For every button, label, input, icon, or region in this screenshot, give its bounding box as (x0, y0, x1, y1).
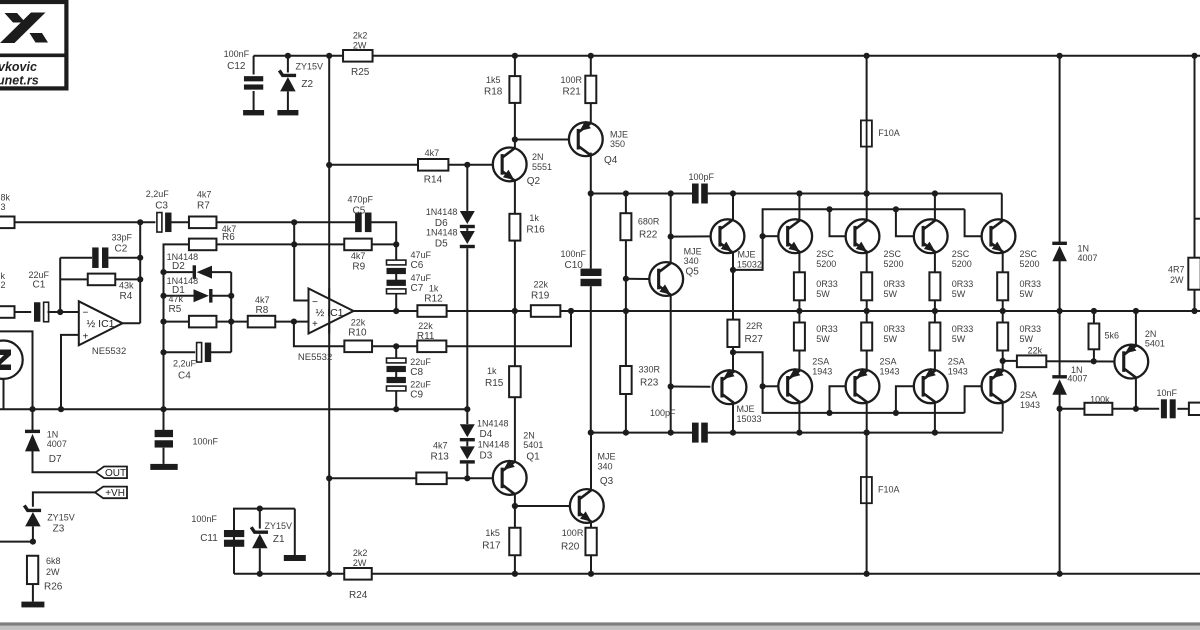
wire Q5 base (626, 278, 649, 280)
input source circle (0, 341, 23, 379)
wire 0R33 upper #3 to mid rail (934, 300, 936, 311)
resistor R10 (344, 341, 372, 353)
svg-text:680R: 680R (638, 217, 660, 227)
wire 2SC5200 #4 collector (1001, 194, 1003, 220)
wire R22 to Q5 base node (625, 240, 627, 311)
svg-text:2N: 2N (1145, 329, 1157, 339)
wire 10nF to edge resistor (1177, 408, 1189, 410)
svg-text:5W: 5W (884, 334, 898, 344)
svg-text:D3: D3 (480, 451, 493, 462)
svg-text:5200: 5200 (816, 259, 836, 269)
wire input line to C3 (15, 221, 156, 223)
svg-text:R9: R9 (352, 262, 365, 273)
op-amp U1B (309, 289, 354, 334)
resistor R7 (189, 217, 217, 229)
wire C9 to ground rail (395, 391, 397, 409)
svg-text:5200: 5200 (1020, 259, 1040, 269)
svg-text:OUT: OUT (105, 468, 126, 479)
resistor R27 (727, 320, 739, 347)
resistor R8 (217, 321, 248, 323)
resistor R17 (509, 528, 520, 556)
svg-text:22k: 22k (418, 321, 433, 331)
svg-text:47k: 47k (169, 294, 184, 304)
diode D5 (466, 228, 468, 231)
wire 2SC5200 #3 emitter (934, 253, 936, 273)
svg-text:2W: 2W (353, 41, 367, 51)
wire R13 to Q1 base (447, 477, 493, 479)
svg-text:2,2uF: 2,2uF (146, 189, 170, 199)
wire Q4 collector to rail (590, 153, 592, 194)
svg-text:1N4148: 1N4148 (426, 207, 458, 217)
svg-text:Q4: Q4 (604, 155, 618, 166)
svg-text:5551: 5551 (532, 162, 552, 172)
wire diode network right column (230, 272, 232, 352)
wire Q5 collector to driver base (671, 235, 711, 237)
wire 2SA1943 #3 collector (934, 403, 936, 433)
svg-text:100nF: 100nF (561, 249, 587, 259)
wire bottom negative supply rail (234, 573, 1200, 575)
svg-text:43k: 43k (119, 281, 134, 291)
transistor Q5 (649, 262, 683, 296)
svg-text:22uF: 22uF (29, 270, 50, 280)
resistor R13 (416, 473, 446, 485)
wire R8 to op-amp2 plus (275, 321, 308, 323)
svg-text:MJE: MJE (610, 130, 628, 140)
svg-text:47uF: 47uF (411, 273, 432, 283)
transistor 2SA1943 #4 (982, 369, 1016, 403)
diode D2 (164, 271, 193, 273)
svg-text:0R33: 0R33 (884, 324, 906, 334)
zener Z2 (285, 53, 291, 59)
svg-text:D2: D2 (172, 261, 185, 272)
svg-text:5401: 5401 (523, 440, 543, 450)
svg-text:C9: C9 (410, 390, 423, 401)
svg-text:2SA: 2SA (948, 357, 965, 367)
zener Z1 (257, 506, 263, 512)
logo X mark (0, 13, 46, 44)
svg-text:+: + (312, 319, 318, 330)
diode D6 (466, 165, 468, 211)
page bottom border (0, 622, 1200, 625)
capacitor 100pF lower (692, 423, 699, 443)
wire R14 line (329, 164, 418, 166)
svg-text:C5: C5 (353, 206, 366, 217)
svg-text:D5: D5 (435, 239, 448, 250)
svg-text:C7: C7 (411, 283, 424, 294)
svg-text:MJE: MJE (738, 250, 756, 260)
svg-text:1k5: 1k5 (485, 528, 500, 538)
wire C2 right (109, 257, 141, 259)
capacitor C11 (233, 530, 235, 574)
resistor R14 (418, 159, 448, 171)
wire left ground rail (0, 408, 467, 410)
wire C1 to op-amp (48, 311, 79, 313)
svg-text:1k5: 1k5 (486, 75, 501, 85)
wire op-amp1 output (123, 322, 141, 324)
svg-text:R7: R7 (197, 201, 210, 212)
svg-text:1943: 1943 (1020, 400, 1040, 410)
svg-text:1k: 1k (529, 213, 539, 223)
ground R26 (21, 602, 44, 608)
wire C7 to output node (395, 294, 397, 311)
wire R2 to C1 (15, 311, 32, 313)
svg-text:R10: R10 (348, 328, 367, 339)
transistor driver MJE15033 (713, 370, 747, 404)
resistor 0R33 lower #3 (934, 311, 936, 323)
input source box (0, 331, 33, 409)
resistor R6 (189, 239, 217, 251)
svg-text:22R: 22R (746, 321, 763, 331)
resistor 0R33 upper #2 (861, 272, 872, 300)
svg-text:2W: 2W (46, 567, 60, 577)
wire 2SC5200 #3 collector (934, 194, 936, 220)
transistor 2SA1943 #1 (778, 369, 812, 403)
capacitor C6 (387, 260, 406, 265)
svg-text:100R: 100R (561, 75, 583, 85)
svg-text:47uF: 47uF (411, 250, 432, 260)
wire R15 to Q1 emitter (514, 397, 516, 461)
svg-text:33pF: 33pF (112, 233, 133, 243)
svg-text:R4: R4 (120, 291, 133, 302)
wire D7 to OUT tag (33, 447, 96, 472)
wire 100k to 10nF (1112, 408, 1159, 410)
svg-text:100nF: 100nF (224, 49, 250, 59)
transistor Q1 (493, 461, 527, 495)
wire output-stage negative rail (591, 432, 692, 434)
svg-text:½ IC1: ½ IC1 (316, 307, 344, 319)
op-amp U1A (79, 301, 123, 345)
capacitor C10 (590, 194, 592, 269)
svg-text:1N: 1N (47, 430, 59, 440)
svg-text:2SA: 2SA (880, 357, 897, 367)
wire top positive supply rail (254, 55, 1200, 57)
svg-text:1943: 1943 (880, 367, 900, 377)
svg-text:C11: C11 (200, 533, 218, 544)
svg-text:R21: R21 (563, 87, 582, 98)
svg-text:R18: R18 (484, 87, 503, 98)
svg-text:C8: C8 (410, 367, 423, 378)
transistor 2SC5200 #3 (914, 219, 948, 253)
svg-text:Z3: Z3 (53, 524, 65, 535)
svg-text:MJE: MJE (598, 452, 616, 462)
svg-text:Z1: Z1 (273, 534, 285, 545)
wire R18 to Q2 collector (514, 103, 516, 148)
ground Z1 (294, 509, 296, 555)
wire R12 to R19 (447, 310, 531, 312)
capacitor C1 (34, 302, 40, 322)
wire diode column to Q1 base line (466, 464, 468, 479)
svg-text:100R: 100R (562, 528, 584, 538)
wire lower base bus (733, 352, 965, 413)
svg-text:C12: C12 (227, 61, 246, 72)
capacitor C3 (157, 213, 162, 233)
resistor 22k (1017, 355, 1046, 367)
wire 4R7 to mid rail (1194, 290, 1196, 311)
node +VH (95, 487, 127, 499)
svg-text:22uF: 22uF (410, 380, 431, 390)
resistor R22 (625, 194, 627, 214)
svg-text:−: − (83, 308, 89, 319)
svg-text:ZY15V: ZY15V (296, 62, 324, 72)
wire Q1 collector to Q3 base (515, 505, 570, 507)
resistor 0R33 upper #1 (794, 272, 805, 300)
svg-text:4k7: 4k7 (433, 441, 448, 451)
svg-text:22k: 22k (534, 280, 549, 290)
svg-text:22k: 22k (1028, 345, 1043, 355)
svg-text:100pF: 100pF (650, 408, 676, 418)
wire 22k to transistor base (1046, 360, 1114, 362)
wire R13 line (329, 477, 416, 479)
resistor 0R33 lower #2 (866, 311, 868, 323)
svg-text:vkovic: vkovic (0, 60, 37, 74)
svg-text:5200: 5200 (952, 259, 972, 269)
transistor driver MJE15032 (711, 219, 745, 253)
svg-text:340: 340 (598, 462, 613, 472)
svg-text:R16: R16 (526, 225, 545, 236)
wire 0R33 upper #1 to mid rail (798, 300, 800, 311)
svg-text:R27: R27 (745, 334, 764, 345)
resistor R18 (514, 56, 516, 76)
capacitor 100nF ground (163, 409, 165, 430)
capacitor C8 (395, 346, 397, 359)
resistor R23 (625, 311, 627, 366)
wire Q5 collector riser (670, 194, 672, 263)
svg-text:R19: R19 (531, 291, 550, 302)
wire R27 to lower driver emitter (732, 347, 734, 371)
svg-text:2SA: 2SA (812, 357, 829, 367)
resistor R16 (514, 181, 516, 214)
svg-text:C2: C2 (115, 244, 128, 255)
resistor R3 (0, 217, 15, 229)
wire 0R33 upper #4 to mid rail (1002, 300, 1004, 311)
svg-text:R12: R12 (424, 294, 443, 305)
svg-text:C6: C6 (411, 260, 424, 271)
wire 0R33 upper #2 to mid rail (866, 300, 868, 311)
resistor 100k (1060, 408, 1085, 410)
capacitor C5 (355, 213, 362, 233)
wire 2SA1943 #4 base (965, 386, 982, 413)
resistor R20 (590, 522, 592, 528)
wire R4 left (60, 278, 87, 280)
wire 2SC5200 #2 base (830, 209, 846, 236)
wire feedback column (59, 258, 61, 312)
resistor R19 (531, 305, 561, 317)
svg-text:F10A: F10A (878, 128, 900, 138)
resistor R15 (514, 311, 516, 366)
wire R12 left (354, 310, 418, 312)
svg-text:ZY15V: ZY15V (265, 521, 293, 531)
wire plus to feedback line (294, 322, 345, 347)
svg-text:22uF: 22uF (410, 357, 431, 367)
wire 2SA1943 #1 base (763, 385, 779, 387)
wire 2SC5200 #1 emitter (798, 253, 800, 273)
svg-text:10nF: 10nF (1157, 388, 1178, 398)
wire C2 left (60, 257, 92, 259)
svg-text:0R33: 0R33 (816, 324, 838, 334)
wire 2SA1943 #2 base (830, 386, 846, 413)
wire Q8 emitter to mid rail (1135, 311, 1137, 346)
svg-text:6k8: 6k8 (46, 556, 61, 566)
wire 4R7 column (1194, 56, 1196, 258)
wire branch to edge (1195, 218, 1200, 220)
resistor 5k6 (1093, 311, 1095, 324)
svg-text:R22: R22 (639, 230, 658, 241)
wire 0R33 lower #2 to 2SA1943 emitter (866, 351, 868, 370)
svg-text:Z2: Z2 (301, 79, 313, 90)
wire 2SC5200 #2 collector (866, 194, 868, 220)
wire R10 to R11 (372, 345, 417, 347)
svg-text:5W: 5W (1020, 289, 1034, 299)
svg-text:100nF: 100nF (191, 514, 217, 524)
resistor 0R33 upper #4 (997, 272, 1008, 300)
transistor 2SC5200 #1 (778, 219, 812, 253)
wire op-amp1 plus input to ground rail (61, 335, 79, 409)
svg-text:R11: R11 (417, 331, 435, 342)
svg-text:2W: 2W (1170, 275, 1184, 285)
wire C5 right (372, 222, 397, 261)
wire R7 to C5 (217, 221, 357, 223)
diode 1N4007 upper (1059, 56, 1061, 242)
wire Q3 collector to drive rail (590, 433, 592, 490)
resistor R11 (417, 341, 446, 353)
wire 2SC5200 #1 collector (798, 194, 800, 220)
wire op-amp1 output column (139, 222, 141, 323)
svg-text:1N4148: 1N4148 (477, 419, 509, 429)
svg-text:15032: 15032 (737, 260, 762, 270)
resistor R21 (590, 56, 592, 76)
svg-text:C1: C1 (33, 280, 46, 291)
wire op-amp supply bus (328, 56, 330, 574)
svg-text:340: 340 (684, 256, 699, 266)
svg-text:D4: D4 (480, 429, 493, 440)
svg-text:MJE: MJE (684, 247, 702, 257)
svg-text:C3: C3 (155, 201, 168, 212)
svg-text:R26: R26 (44, 582, 63, 593)
svg-text:R5: R5 (169, 304, 182, 315)
svg-text:R20: R20 (561, 542, 580, 553)
diode 1N4007 lower (1059, 311, 1061, 376)
transistor 2N5401 protection (1114, 345, 1148, 379)
svg-text:D7: D7 (49, 454, 62, 465)
svg-text:1N: 1N (1078, 244, 1090, 254)
svg-text:ZY15V: ZY15V (47, 513, 75, 523)
svg-text:100pF: 100pF (689, 172, 715, 182)
wire C3 to R7 (170, 221, 189, 223)
wire upper base bus (733, 209, 965, 270)
svg-text:Q3: Q3 (600, 476, 614, 487)
svg-text:22k: 22k (351, 318, 366, 328)
svg-text:2SC: 2SC (1020, 249, 1038, 259)
svg-text:2: 2 (1, 280, 6, 290)
svg-text:½ IC1: ½ IC1 (87, 318, 115, 330)
svg-text:R24: R24 (349, 590, 368, 601)
wire input source to rail (3, 379, 5, 409)
svg-text:4k7: 4k7 (425, 148, 440, 158)
resistor R2 (0, 306, 15, 318)
logo box (0, 2, 66, 88)
diode D4 (466, 409, 468, 424)
svg-text:5W: 5W (952, 334, 966, 344)
wire R16 to mid rail (514, 241, 516, 311)
resistor R25 (343, 50, 373, 62)
svg-text:4007: 4007 (1067, 374, 1087, 384)
svg-text:4k7: 4k7 (351, 251, 366, 261)
wire 1N4007 lower to bottom rail (1059, 393, 1061, 574)
svg-text:100k: 100k (1090, 394, 1110, 404)
svg-text:NE5532: NE5532 (92, 346, 126, 357)
wire Z3 ground spur (0, 541, 33, 543)
transistor Q2 (493, 148, 527, 182)
svg-text:5k6: 5k6 (1105, 331, 1120, 341)
wire 0R33 lower #1 to 2SA1943 emitter (798, 351, 800, 370)
svg-text:R25: R25 (351, 67, 370, 78)
svg-text:1k: 1k (429, 284, 439, 294)
svg-text:100nF: 100nF (193, 437, 219, 447)
wire 2SC5200 #1 base (763, 235, 779, 237)
wire C10 to negative drive rail (590, 286, 592, 432)
capacitor C9 (395, 371, 397, 380)
wire driver collector (732, 194, 734, 220)
svg-text:5W: 5W (816, 289, 830, 299)
capacitor 100pF upper (692, 184, 699, 204)
svg-text:3: 3 (1, 202, 6, 212)
svg-text:F10A: F10A (878, 485, 900, 495)
svg-text:1N4148: 1N4148 (478, 440, 510, 450)
resistor 0R33 upper #3 (929, 272, 940, 300)
wire R21 to Q4 emitter (590, 103, 592, 122)
fuse F10A upper (866, 56, 868, 194)
svg-text:R14: R14 (424, 175, 443, 186)
svg-text:2SC: 2SC (952, 249, 970, 259)
wire 1N4007 to mid rail (1059, 260, 1061, 312)
capacitor C7 (395, 273, 397, 282)
svg-text:350: 350 (610, 139, 625, 149)
wire Q5 emitter to lower driver base node (670, 295, 672, 432)
resistor R26 (32, 541, 34, 544)
svg-text:unet.rs: unet.rs (0, 74, 39, 88)
svg-text:4007: 4007 (47, 439, 67, 449)
svg-text:Q5: Q5 (686, 267, 700, 278)
svg-text:R23: R23 (640, 378, 659, 389)
svg-text:1943: 1943 (812, 367, 832, 377)
svg-text:1k: 1k (487, 366, 497, 376)
resistor 0R33 lower #4 (1002, 311, 1004, 323)
wire 2SA1943 #1 collector (798, 403, 800, 433)
wire +VH to Z3 (33, 492, 95, 506)
wire lower driver base (671, 386, 711, 388)
svg-text:1943: 1943 (948, 367, 968, 377)
wire Q2 collector to Q4 base (515, 139, 569, 141)
wire 0R33 lower #4 to 2SA1943 emitter (1002, 351, 1004, 370)
wire 2SC5200 #2 emitter (866, 253, 868, 273)
resistor R24 (344, 568, 372, 580)
resistor R4 (88, 274, 116, 286)
svg-text:R15: R15 (485, 378, 504, 389)
wire R6 to R9 (217, 243, 345, 245)
svg-text:NE5532: NE5532 (298, 352, 332, 363)
svg-text:0R33: 0R33 (816, 279, 838, 289)
svg-text:2N: 2N (532, 152, 544, 162)
wire R14 to Q2 base (449, 164, 493, 166)
svg-text:2SC: 2SC (884, 249, 902, 259)
svg-text:0R33: 0R33 (1020, 279, 1042, 289)
svg-text:Q1: Q1 (526, 452, 540, 463)
svg-text:0R33: 0R33 (884, 279, 906, 289)
transistor 2SC5200 #2 (846, 219, 880, 253)
capacitor 10nF (1161, 399, 1167, 418)
svg-text:5401: 5401 (1145, 339, 1165, 349)
svg-text:0R33: 0R33 (952, 324, 974, 334)
